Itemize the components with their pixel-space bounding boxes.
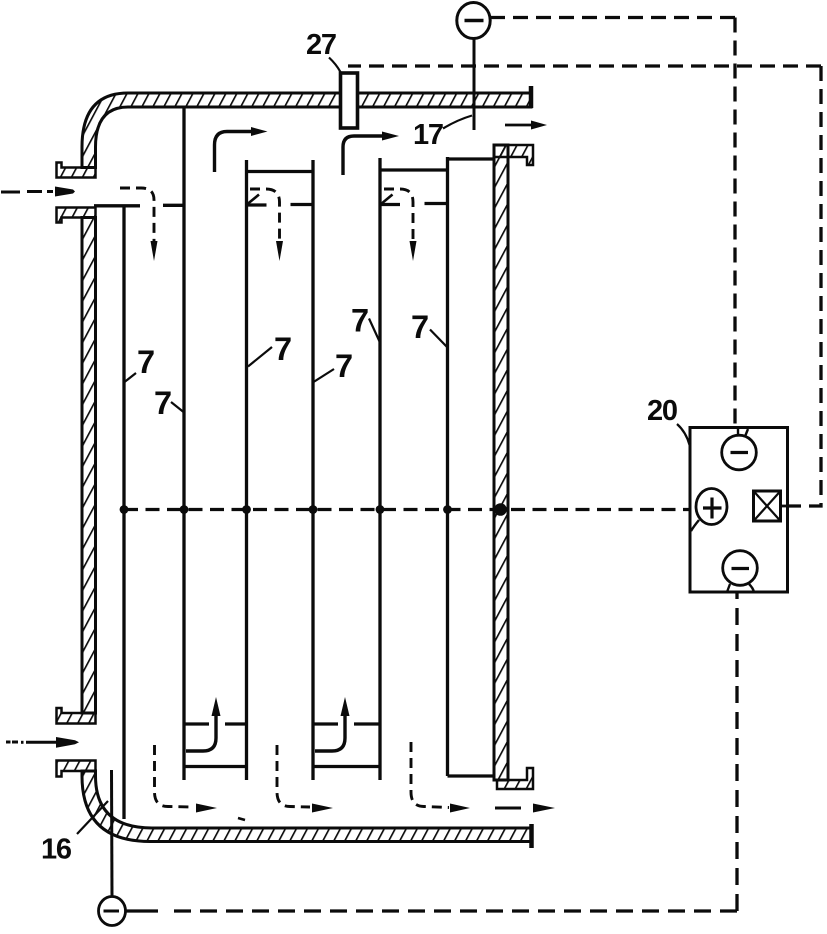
junction dot end plate	[494, 503, 507, 516]
leader 7 plate C	[248, 347, 272, 367]
power supply box 20	[690, 428, 788, 593]
bottom inlet lower flange	[57, 761, 96, 777]
leader 20	[677, 424, 690, 445]
gas up-arrow channel D-E top	[343, 136, 382, 175]
slot tick plate C	[248, 195, 260, 205]
svg-text:7: 7	[351, 303, 369, 339]
bottom baffle segments channel B-C	[184, 722, 209, 725]
junction dot plate A	[120, 505, 129, 514]
baffle segments channel E-F	[380, 203, 400, 206]
insulator bushing 27	[341, 73, 358, 128]
electrode plate 7 (C)	[245, 160, 248, 780]
svg-text:7: 7	[137, 344, 155, 380]
svg-text:16: 16	[41, 834, 72, 866]
bottom inlet flow arrow	[6, 741, 57, 744]
bottom baffle segments channel D-E	[313, 722, 338, 725]
F to end plate bottom closure	[448, 774, 495, 777]
electrode plate 7 (B)	[182, 107, 185, 780]
end plate bottom foot	[497, 768, 533, 789]
up-arrow inside channel D-E bottom	[315, 716, 345, 751]
gas up-arrow channel B-C top	[215, 132, 252, 173]
plus terminal of box 20	[696, 489, 727, 525]
minus terminal (bottom) of box 20	[723, 551, 758, 586]
dashed wire: right side down to X port	[789, 66, 821, 506]
electrode plate 7 (F)	[446, 157, 449, 776]
tick plus terminal to box edge	[691, 520, 699, 531]
end plate top flange	[494, 145, 533, 165]
leader 7 plate B	[171, 402, 184, 412]
channel D-E bottom closure	[313, 765, 380, 768]
leader 7 plate D	[314, 369, 335, 382]
dashed flow path channel E-F top	[384, 189, 413, 241]
right end plate (hatched)	[494, 145, 508, 780]
left vessel wall (hatched shell)	[82, 218, 96, 714]
up-arrow inside channel B-C bottom	[186, 716, 216, 751]
baffle segments channel C-D	[247, 203, 267, 206]
svg-text:7: 7	[411, 309, 429, 345]
svg-text:17: 17	[413, 119, 443, 151]
electrode plate 7 (D)	[311, 160, 314, 780]
vessel top wall (hatched shell)	[82, 93, 531, 168]
wire stub X port to box edge	[781, 505, 788, 508]
dashed wire: down to box 20 top	[733, 18, 736, 428]
leader 7 plate A	[125, 373, 137, 382]
dashed flow path channel A-B bottom exit	[155, 745, 195, 807]
stray dash mark	[238, 818, 245, 820]
dashed wire: up to box 20 bottom	[735, 592, 738, 911]
wire from vessel bottom to lower terminal	[110, 770, 114, 897]
leader 16	[77, 801, 108, 834]
wire from top terminal through wall	[473, 38, 476, 130]
dashed flow path channel C-D top	[250, 189, 280, 241]
bottom inlet upper flange	[57, 708, 96, 724]
inlet floor line	[94, 204, 140, 207]
svg-text:7: 7	[274, 331, 292, 367]
junction dot plate F	[443, 505, 452, 514]
svg-text:20: 20	[647, 395, 677, 427]
wire stub into plus terminal	[690, 507, 697, 510]
X port of box 20	[754, 491, 781, 521]
leader 7 plate E	[369, 319, 380, 343]
negative terminal circle (bottom)	[99, 897, 126, 926]
dashed flow path channel C-D bottom exit	[277, 745, 310, 807]
ticks box top to minus terminal	[737, 428, 739, 436]
F to end plate top closure	[448, 157, 495, 160]
minus terminal (top) of box 20	[722, 435, 757, 470]
dashed flow path channel E-F bottom exit	[411, 742, 449, 808]
negative terminal circle (top)	[457, 3, 490, 39]
leader 27	[329, 58, 341, 73]
svg-text:7: 7	[154, 385, 172, 421]
top inlet flow arrow	[1, 190, 53, 194]
ticks bottom terminal to box bottom	[727, 584, 730, 592]
baffle segment channel A-B right	[163, 204, 184, 207]
junction dot plate E	[376, 505, 385, 514]
dashed wire: top terminal to box 20 (horizontal)	[490, 16, 735, 19]
dashed flow path channel A-B top	[120, 188, 154, 241]
channel B-C bottom closure	[184, 765, 247, 768]
dashed outlet flow below end plate	[495, 807, 521, 810]
top wall right end cap	[529, 86, 534, 108]
dashed wire: bottom terminal to box 20 (horizontal)	[125, 909, 158, 912]
svg-text:27: 27	[306, 29, 336, 61]
dashed wire: bushing 27 to right side	[348, 64, 821, 67]
vessel bottom wall with left curve (hatched shell, node 16)	[82, 771, 531, 842]
outlet arrow top right (node 17 outlet)	[505, 124, 532, 127]
leader 17	[443, 116, 472, 129]
bottom wall right end cap	[529, 824, 534, 848]
top inlet upper flange	[57, 163, 96, 178]
dashed wire: center electrode bus	[124, 508, 690, 511]
channel C-D top closure	[247, 170, 314, 173]
electrode plate 7 (E)	[378, 158, 381, 780]
junction dot plate C	[242, 505, 251, 514]
junction dot plate B	[180, 505, 189, 514]
svg-text:7: 7	[335, 348, 353, 384]
top inlet lower flange	[57, 208, 96, 223]
slot tick plate E	[381, 195, 393, 205]
electrode plate 7 (A)	[122, 207, 125, 819]
junction dot plate D	[309, 505, 318, 514]
leader 7 plate F	[430, 330, 447, 348]
channel E-F top closure	[380, 168, 448, 171]
